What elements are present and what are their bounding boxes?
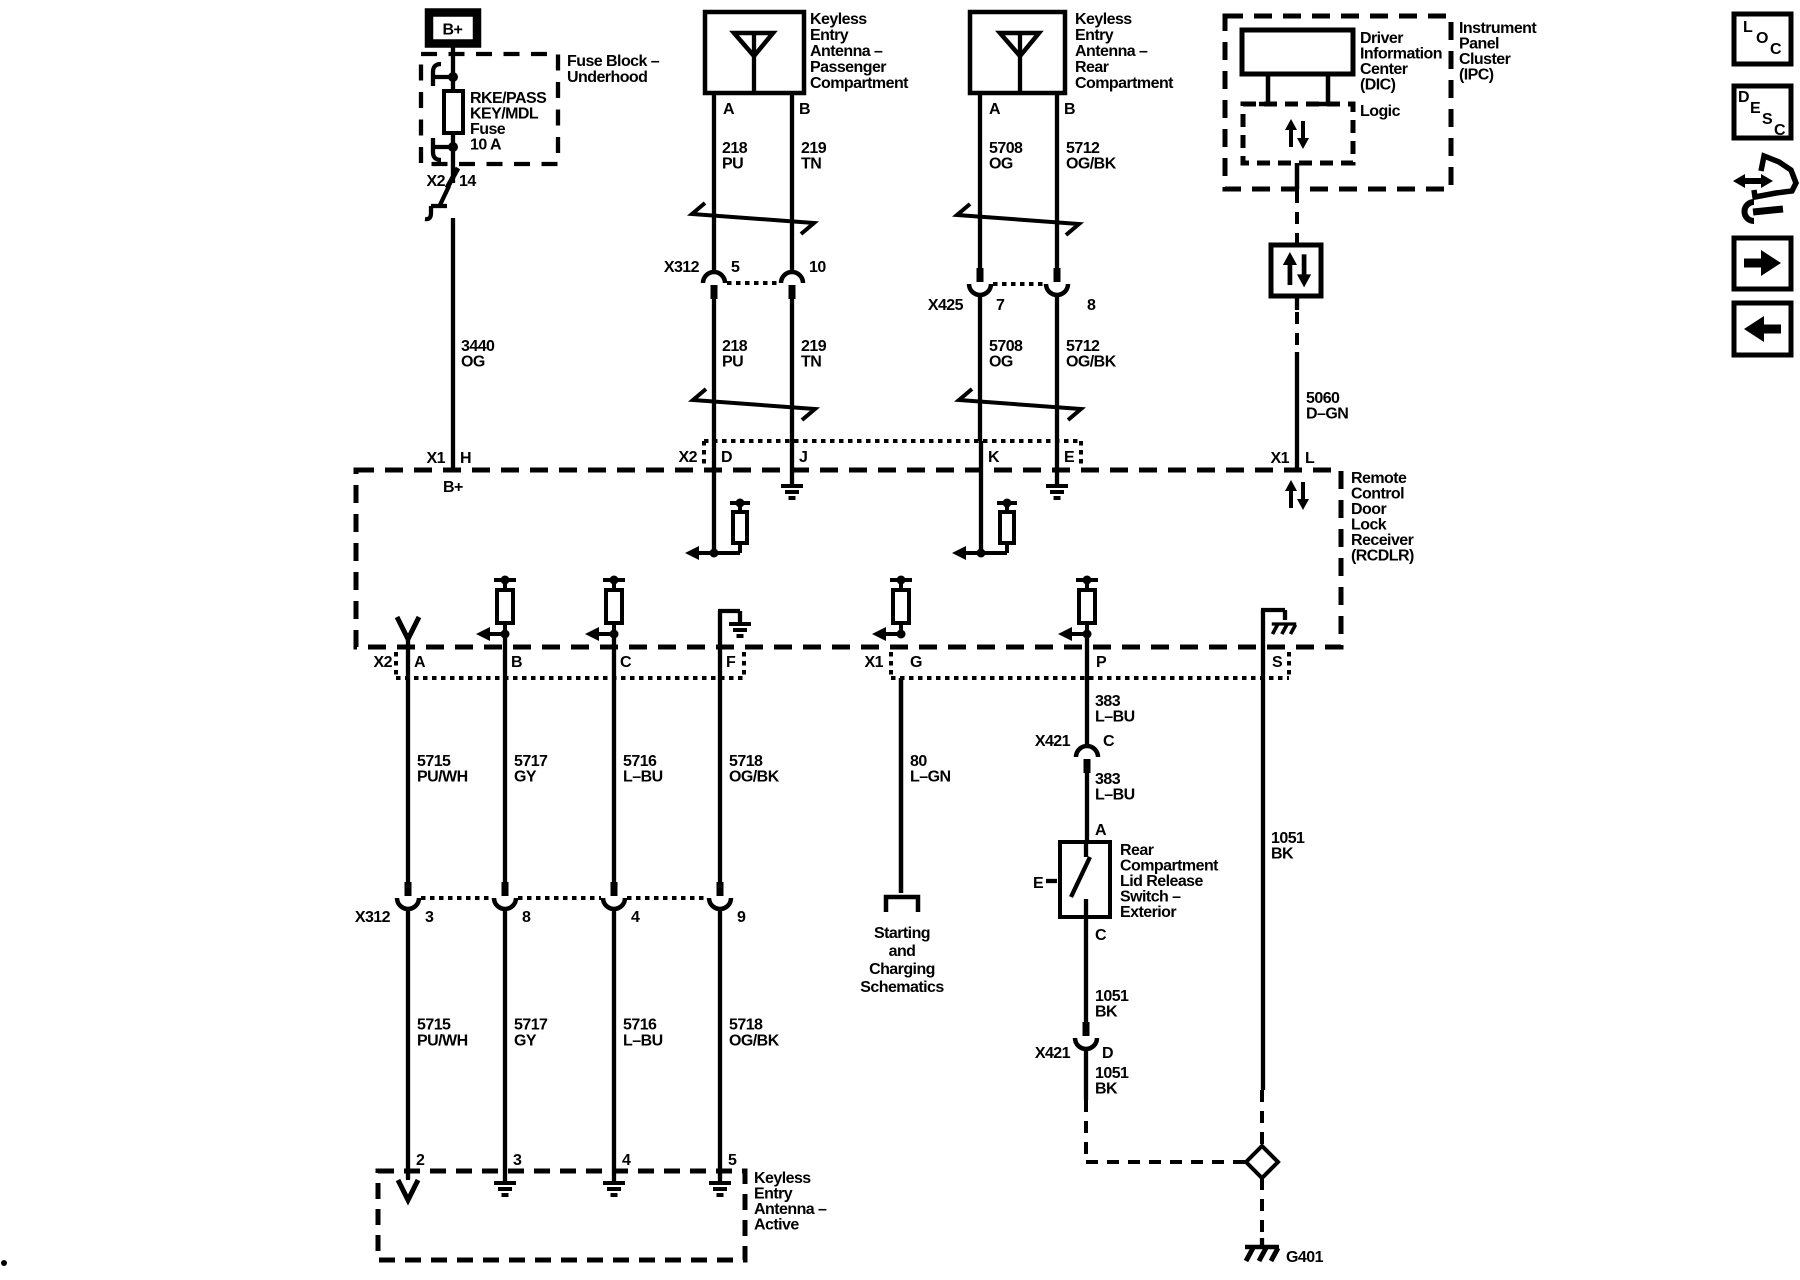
svg-text:Compartment: Compartment [810,75,909,92]
svg-text:3: 3 [425,909,434,926]
svg-text:Remote: Remote [1351,470,1407,487]
svg-text:X312: X312 [664,259,700,276]
svg-text:F: F [726,654,736,671]
svg-text:P: P [1096,654,1107,671]
svg-text:KEY/MDL: KEY/MDL [470,106,539,123]
svg-text:383: 383 [1095,771,1121,788]
svg-text:BK: BK [1095,1004,1118,1021]
svg-text:K: K [988,449,1000,466]
svg-text:B: B [1064,101,1075,118]
svg-text:Starting: Starting [874,925,930,942]
svg-text:10: 10 [809,259,826,276]
svg-text:X1: X1 [427,450,446,467]
svg-text:D: D [1102,1045,1113,1062]
svg-text:Keyless: Keyless [1075,11,1132,28]
svg-text:BK: BK [1095,1081,1118,1098]
svg-text:L–BU: L–BU [1095,709,1135,726]
svg-text:A: A [1095,822,1107,839]
svg-text:GY: GY [514,1033,537,1050]
svg-text:H: H [460,450,471,467]
svg-text:TN: TN [801,156,821,173]
svg-text:OG: OG [989,354,1013,371]
svg-text:L–GN: L–GN [910,769,950,786]
svg-text:5718: 5718 [729,1017,763,1034]
svg-text:X1: X1 [1271,450,1290,467]
svg-text:5: 5 [731,259,740,276]
svg-text:and: and [889,943,916,960]
svg-text:Passenger: Passenger [810,59,886,76]
svg-text:3440: 3440 [461,338,495,355]
svg-text:D: D [721,449,732,466]
svg-text:Charging: Charging [869,961,935,978]
svg-text:D–GN: D–GN [1306,406,1348,423]
svg-text:G401: G401 [1286,1249,1324,1266]
svg-text:PU/WH: PU/WH [417,1033,468,1050]
svg-text:Panel: Panel [1459,36,1499,53]
svg-text:B+: B+ [443,22,463,39]
svg-text:TN: TN [801,354,821,371]
svg-text:3: 3 [513,1152,522,1169]
svg-text:10 A: 10 A [470,137,502,154]
svg-text:Fuse: Fuse [470,121,506,138]
svg-text:L: L [1743,19,1753,36]
svg-text:PU/WH: PU/WH [417,769,468,786]
svg-text:X2: X2 [374,654,393,671]
svg-text:OG/BK: OG/BK [729,1033,780,1050]
svg-text:Exterior: Exterior [1120,904,1176,921]
svg-text:Center: Center [1360,61,1408,78]
svg-text:PU: PU [722,156,743,173]
svg-text:OG/BK: OG/BK [729,769,780,786]
svg-text:C: C [620,654,632,671]
svg-text:Logic: Logic [1360,103,1401,120]
svg-text:4: 4 [631,909,640,926]
svg-text:OG: OG [461,354,485,371]
svg-text:Keyless: Keyless [810,11,867,28]
svg-text:Switch –: Switch – [1120,889,1181,906]
svg-text:Compartment: Compartment [1120,858,1219,875]
svg-text:RKE/PASS: RKE/PASS [470,90,547,107]
svg-text:(IPC): (IPC) [1459,67,1494,84]
svg-text:80: 80 [910,753,927,770]
svg-text:1051: 1051 [1095,988,1129,1005]
svg-text:5708: 5708 [989,140,1023,157]
svg-text:8: 8 [1087,297,1096,314]
svg-text:C: C [1774,122,1786,139]
svg-text:L: L [1305,450,1315,467]
svg-text:Driver: Driver [1360,30,1403,47]
svg-text:5717: 5717 [514,1017,548,1034]
svg-text:BK: BK [1271,846,1294,863]
svg-text:D: D [1738,89,1749,106]
svg-text:9: 9 [737,909,746,926]
svg-text:E: E [1750,100,1761,117]
svg-text:C: C [1095,927,1107,944]
svg-text:S: S [1272,654,1283,671]
svg-text:218: 218 [722,338,748,355]
svg-text:A: A [414,654,426,671]
svg-text:X2: X2 [427,173,446,190]
svg-text:5716: 5716 [623,1017,657,1034]
svg-text:PU: PU [722,354,743,371]
svg-text:Fuse Block –: Fuse Block – [567,53,660,70]
svg-text:2: 2 [416,1152,425,1169]
svg-text:O: O [1756,30,1768,47]
svg-text:5717: 5717 [514,753,548,770]
svg-text:5715: 5715 [417,753,451,770]
svg-text:5715: 5715 [417,1017,451,1034]
svg-text:5708: 5708 [989,338,1023,355]
svg-text:OG: OG [989,156,1013,173]
svg-text:7: 7 [996,297,1005,314]
svg-text:Cluster: Cluster [1459,51,1511,68]
svg-text:E: E [1033,875,1044,892]
svg-text:219: 219 [801,338,827,355]
svg-text:Receiver: Receiver [1351,532,1414,549]
svg-text:G: G [910,654,922,671]
svg-text:A: A [723,101,735,118]
svg-text:Active: Active [754,1217,799,1234]
svg-text:X425: X425 [928,297,964,314]
svg-text:383: 383 [1095,693,1121,710]
svg-text:OG/BK: OG/BK [1066,354,1117,371]
svg-text:8: 8 [522,909,531,926]
svg-text:Entry: Entry [754,1186,793,1203]
svg-text:L–BU: L–BU [1095,787,1135,804]
svg-text:Rear: Rear [1075,59,1109,76]
svg-text:X2: X2 [679,449,698,466]
svg-text:(DIC): (DIC) [1360,77,1396,94]
svg-text:Information: Information [1360,46,1442,63]
svg-text:X421: X421 [1035,733,1071,750]
svg-text:Entry: Entry [1075,27,1114,44]
svg-text:A: A [989,101,1001,118]
svg-text:Lock: Lock [1351,517,1387,534]
svg-text:Rear: Rear [1120,842,1154,859]
svg-text:Lid Release: Lid Release [1120,873,1204,890]
svg-text:219: 219 [801,140,827,157]
svg-text:Control: Control [1351,486,1404,503]
svg-text:C: C [1770,41,1782,58]
svg-text:L–BU: L–BU [623,1033,663,1050]
svg-text:Antenna –: Antenna – [1075,43,1148,60]
svg-text:5712: 5712 [1066,338,1100,355]
svg-text:E: E [1064,449,1075,466]
svg-text:1051: 1051 [1271,830,1305,847]
svg-text:Instrument: Instrument [1459,20,1537,37]
svg-text:5718: 5718 [729,753,763,770]
svg-text:5716: 5716 [623,753,657,770]
svg-text:S: S [1762,111,1773,128]
svg-text:X312: X312 [355,909,391,926]
svg-text:B: B [799,101,810,118]
svg-text:Entry: Entry [810,27,849,44]
svg-text:OG/BK: OG/BK [1066,156,1117,173]
svg-text:218: 218 [722,140,748,157]
svg-text:4: 4 [622,1152,631,1169]
svg-text:5060: 5060 [1306,390,1340,407]
svg-text:X1: X1 [865,654,884,671]
svg-text:1051: 1051 [1095,1065,1129,1082]
svg-text:B: B [511,654,522,671]
svg-text:X421: X421 [1035,1045,1071,1062]
svg-text:Door: Door [1351,501,1386,518]
svg-text:J: J [799,449,807,466]
svg-text:B+: B+ [443,479,463,496]
svg-text:5712: 5712 [1066,140,1100,157]
svg-text:Compartment: Compartment [1075,75,1174,92]
svg-text:(RCDLR): (RCDLR) [1351,548,1414,565]
svg-text:Underhood: Underhood [567,69,647,86]
svg-text:Antenna –: Antenna – [754,1201,827,1218]
svg-text:14: 14 [459,173,476,190]
svg-text:Schematics: Schematics [860,979,944,996]
svg-text:GY: GY [514,769,537,786]
svg-text:L–BU: L–BU [623,769,663,786]
svg-text:C: C [1103,733,1115,750]
svg-text:Keyless: Keyless [754,1170,811,1187]
svg-text:Antenna –: Antenna – [810,43,883,60]
svg-text:5: 5 [728,1152,737,1169]
